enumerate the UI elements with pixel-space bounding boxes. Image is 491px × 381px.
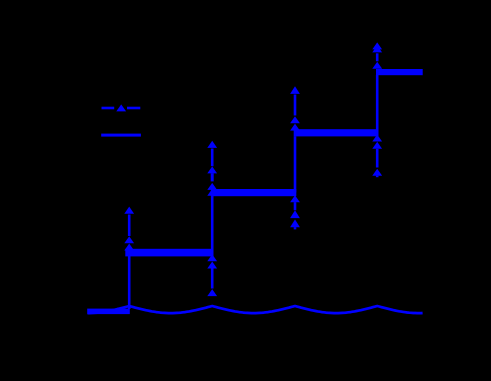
arrow head above jump 2 xyxy=(207,141,217,148)
legend solid line xyxy=(101,134,141,137)
arrow shaft above jump 1 xyxy=(128,215,131,237)
shaft below step 2 at jump 3 xyxy=(294,202,297,210)
arrow head above jump 3 xyxy=(290,86,300,94)
arrow shaft above jump 3 xyxy=(294,95,297,116)
triangle marker jump 2 middle xyxy=(207,183,217,190)
stub below step 2 at jump 3 xyxy=(294,227,297,229)
triangle marker jump 3 lower xyxy=(290,124,300,131)
arrow head above jump 1 xyxy=(124,207,134,214)
triangle marker below step 2 at jump 3 upper xyxy=(290,210,300,218)
step 3 segment xyxy=(294,129,379,136)
bottom triangle marker at jump 2 xyxy=(207,289,217,296)
triangle marker jump 4 merged xyxy=(372,62,382,69)
triangle marker below step 3 at jump 4 lower xyxy=(372,169,382,176)
triangle marker below step 1 at jump 2 xyxy=(207,262,217,269)
wave curve (scalloped density line) xyxy=(88,306,423,313)
triangle marker below step 3 at jump 4 upper xyxy=(372,142,382,149)
riser at jump 1 xyxy=(128,253,131,309)
triangle marker jump 1 lower xyxy=(124,244,134,251)
wedge triangle below step 3 at jump 4 xyxy=(372,135,382,142)
arrow shaft above jump 2 xyxy=(211,149,214,167)
short shaft jump 2 xyxy=(211,173,214,181)
wedge triangle below step 1 at jump 2 xyxy=(207,254,217,261)
triangle marker jump 3 upper xyxy=(290,116,300,123)
triangle marker jump 2 merged xyxy=(207,189,217,196)
step 2 segment xyxy=(211,189,296,196)
riser at jump 4 xyxy=(376,75,379,133)
legend dashed line right dash xyxy=(127,107,140,110)
triangle marker below step 2 at jump 3 lower xyxy=(290,219,300,227)
stub below step 3 at jump 4 xyxy=(376,176,379,178)
legend dashed line left dash xyxy=(102,107,115,110)
step 1 segment xyxy=(125,249,213,257)
arrow head above jump 4 xyxy=(372,42,382,49)
baseline level-0 segment xyxy=(87,309,130,315)
riser at jump 3 xyxy=(294,136,297,192)
shaft below step 1 at jump 2 xyxy=(211,269,214,289)
triangle marker jump 1 upper xyxy=(124,236,134,243)
arrow head overlap jump 4 xyxy=(372,45,382,52)
arrow shaft above jump 4 xyxy=(376,53,379,61)
step 4 segment xyxy=(376,69,423,75)
triangle marker jump 2 top xyxy=(207,166,217,173)
shaft below step 3 at jump 4 xyxy=(376,149,379,168)
legend triangle marker xyxy=(116,104,126,111)
wedge triangle below step 2 at jump 3 xyxy=(290,195,300,202)
riser at jump 2 xyxy=(211,196,214,252)
